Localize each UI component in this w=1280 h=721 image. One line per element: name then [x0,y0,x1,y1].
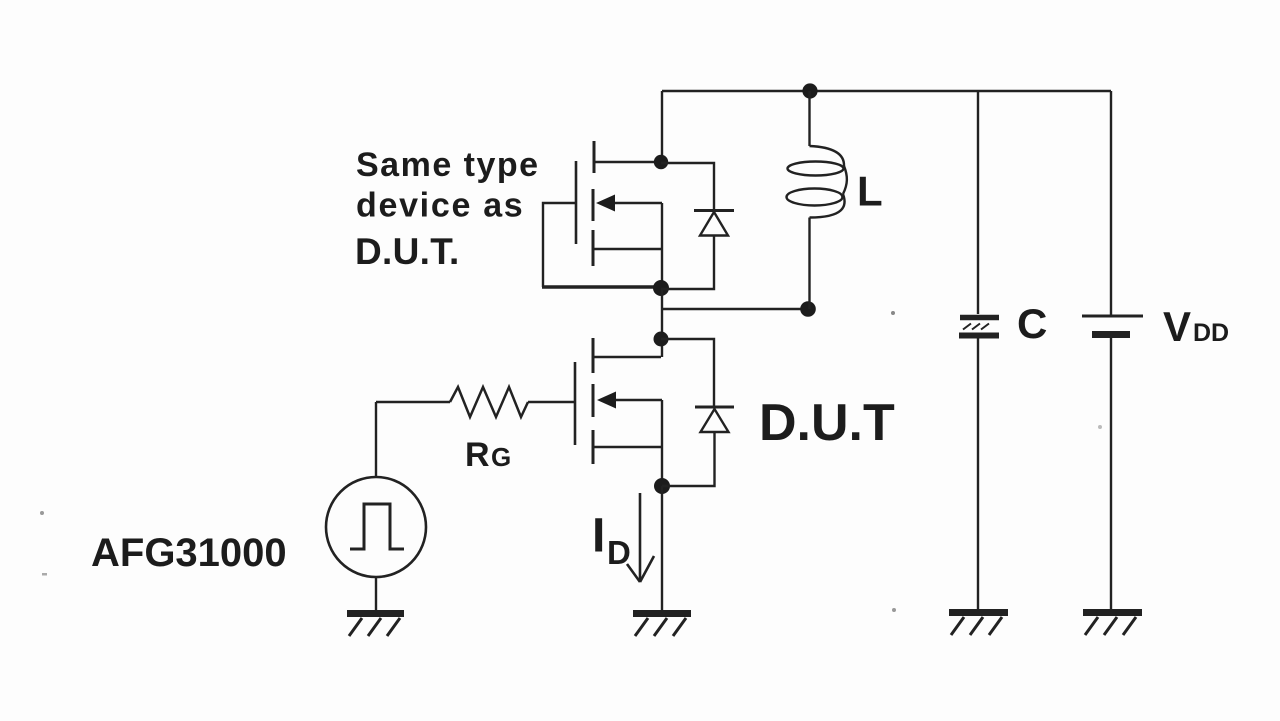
svg-text:D.U.T: D.U.T [759,394,895,452]
svg-text:L: L [857,168,883,215]
svg-text:I: I [592,510,605,563]
wire AFG to ground [375,577,377,611]
ground DUT [633,614,691,637]
svg-text:device as: device as [356,187,524,225]
wire VDD branch top [1110,91,1112,315]
transistor Q2 body arrow head [597,392,616,409]
svg-text:AFG31000: AFG31000 [91,531,287,575]
transistor Q2 drain lead [593,356,661,358]
diode D1 bottom wire [661,236,714,290]
capacitor C top plate [960,315,999,321]
node Q1 drain junction [654,155,668,169]
svg-text:C: C [1017,300,1047,347]
wire Q1 gate tie loop [543,203,576,287]
diode D2 triangle [701,409,729,432]
ground AFG [347,614,404,637]
wire capacitor branch bottom [977,338,979,611]
svg-text:G: G [491,442,511,472]
node Q1 source junction [653,280,669,296]
diode D2 top wire [661,339,714,407]
svg-text:DD: DD [1193,319,1229,347]
current ID arrow head [627,556,654,582]
transistor Q2 body arrow line [613,399,662,401]
wire gate lead to resistor [528,401,575,403]
wire Q2 source to ground [661,486,663,611]
diode D1 cathode bar [694,209,734,212]
wire resistor to source [376,401,450,403]
diode D1 triangle [700,212,728,236]
svg-text:V: V [1163,303,1191,350]
transistor Q2 source lead [593,446,662,448]
transistor Q1 body arrow head [596,195,615,212]
wire Q1 source to Q2 drain [661,288,663,357]
diode D2 cathode bar [695,406,734,409]
wire VDD branch bottom [1110,338,1112,611]
resistor RG zigzag [450,387,528,417]
transistor Q2 channel segments [592,338,595,464]
source VDD top bar [1082,315,1143,318]
transistor Q2 gate bar [574,362,577,445]
svg-text:D.U.T.: D.U.T. [355,231,460,272]
diode D1 top wire [661,163,714,210]
wire inductor top [808,91,810,146]
transistor Q1 channel segments [593,141,594,266]
inductor L coil [810,146,845,166]
svg-text:D: D [607,534,631,571]
transistor Q1 source lead [594,248,662,250]
wire Q1 body/source vertical [661,203,663,288]
node Q2 source junction [654,478,670,494]
current ID arrow line [639,493,642,581]
wire top-left drop to Q1 drain [661,91,663,163]
source AFG pulse symbol [350,504,404,549]
wire Q1 gate tie bottom [542,285,655,288]
transistor Q1 body arrow line [612,202,662,204]
node inductor bottom junction [800,301,816,317]
wire capacitor branch top [977,91,979,314]
stray mark dots [40,511,44,515]
source VDD bottom bar [1092,331,1130,338]
source AFG31000 circle [326,477,426,577]
wire mid rail [662,308,808,310]
transistor Q1 gate bar [575,161,578,244]
svg-text:Same type: Same type [356,146,540,184]
diode D2 bottom wire [662,432,715,486]
wire top rail [662,90,1111,92]
node top rail junction [802,83,817,98]
wire Q2 body/source vertical [661,400,663,486]
svg-text:R: R [465,436,490,474]
wire AFG to corner [375,402,377,477]
node Q2 drain junction [654,332,669,347]
ground C [949,613,1008,636]
capacitor C hatch marks [963,324,989,330]
capacitor C bottom plate [959,333,999,339]
ground VDD [1083,613,1142,636]
wire inductor bottom [808,218,810,310]
transistor Q1 drain lead [594,161,662,163]
